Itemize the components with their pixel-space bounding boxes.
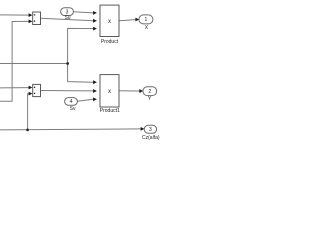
- svg-text:Product1: Product1: [100, 108, 120, 114]
- svg-text:x: x: [108, 89, 111, 95]
- svg-text:1: 1: [145, 17, 148, 23]
- svg-text:Cz(alfa): Cz(alfa): [142, 135, 160, 141]
- svg-text:Sv: Sv: [70, 106, 76, 112]
- svg-text:2: 2: [148, 89, 151, 95]
- svg-text:Product: Product: [101, 39, 119, 45]
- svg-text:Su: Su: [64, 15, 70, 21]
- svg-text:4: 4: [70, 99, 73, 105]
- svg-text:3: 3: [149, 127, 152, 133]
- svg-text:x: x: [108, 19, 111, 25]
